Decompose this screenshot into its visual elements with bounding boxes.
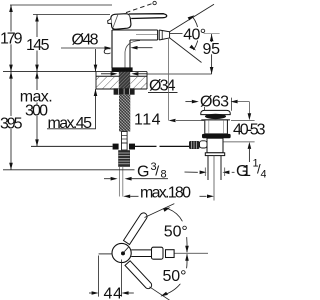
- top view: body circle: [112, 243, 131, 262]
- braided supply hose: [119, 95, 130, 132]
- label 50 upper: [163, 221, 188, 237]
- extension line lever level (y=14.5): [33, 14, 110, 16]
- G3/8 leader underline with arrow: [132, 178, 168, 180]
- svg-text:50°: 50°: [164, 224, 188, 241]
- deck right edge: [146, 72, 148, 89]
- svg-text:40-53: 40-53: [233, 122, 266, 139]
- lower 50 arc: [162, 254, 188, 295]
- svg-text:395: 395: [0, 115, 23, 132]
- label max.300: [19, 90, 54, 103]
- spout inner highlight: [136, 33, 157, 35]
- top view: spout lines: [131, 249, 154, 251]
- top view: left stub: [99, 253, 112, 255]
- faucet base dark strip: [112, 67, 133, 72]
- top view: aerator square: [166, 250, 175, 258]
- tailpipe centerline: [213, 156, 215, 201]
- Ø48 dim line left: [61, 47, 105, 49]
- 40deg arc: [193, 17, 199, 50]
- waste seal band: [202, 134, 231, 138]
- dimension max300 line: [36, 72, 38, 147]
- 44 extension lines: [98, 256, 100, 297]
- 40deg arc arrowheads: [188, 15, 195, 20]
- 395 bottom reference line / G1 1-4 dim line: [3, 169, 140, 171]
- deck surface extension right: [147, 73, 212, 75]
- hose lower tube: [122, 132, 128, 144]
- dimension 95 line: [211, 34, 213, 74]
- svg-text:145: 145: [26, 37, 50, 54]
- lever cap: [111, 14, 131, 30]
- mounting nut: [114, 88, 135, 94]
- supply pipe: [118, 167, 120, 197]
- top view: lower arm axis extension: [150, 287, 172, 300]
- svg-text:/: /: [155, 163, 159, 179]
- aerator left face: [158, 30, 160, 40]
- lever arm: [129, 14, 167, 19]
- label 395: [0, 116, 24, 129]
- waste rod knob: [189, 141, 200, 149]
- faucet body column left edge: [111, 30, 113, 68]
- pop-up waste: Ø63 extension lines: [204, 98, 206, 111]
- pop-up hook behind body: [104, 49, 110, 54]
- 40deg upper ray: [170, 4, 214, 32]
- svg-text:max.45: max.45: [48, 115, 93, 132]
- svg-text:114: 114: [134, 111, 161, 128]
- label 179: [0, 32, 23, 45]
- svg-text:G1: G1: [236, 163, 251, 180]
- max.45 upper leader line: [95, 49, 97, 72]
- deck surface line: [3, 71, 147, 73]
- 40-53 dim upper: [248, 102, 250, 114]
- max.45 underline leader: [47, 89, 96, 129]
- faucet body top / spout top: [112, 29, 158, 31]
- label 95: [202, 42, 221, 54]
- waste tailpipe: [207, 156, 209, 180]
- svg-text:179: 179: [0, 31, 23, 48]
- label G3/8: [135, 163, 185, 178]
- svg-text:Ø63: Ø63: [200, 93, 229, 110]
- waste flange top: [201, 119, 230, 121]
- waste flange: [205, 120, 228, 134]
- waste body: [207, 138, 223, 153]
- deck hatch right: [131, 77, 148, 89]
- svg-text:300: 300: [25, 102, 48, 119]
- waste plug plate: [201, 110, 230, 114]
- dimension 179 arrow down: [9, 65, 13, 72]
- top view: axis line: [175, 252, 209, 254]
- dimension 114 vertical reference: [168, 38, 170, 121]
- svg-text:4: 4: [261, 169, 267, 181]
- top view: lower lever arm: [125, 261, 152, 289]
- dimension 145 arrow up: [35, 15, 39, 22]
- aerator trapezoid: [159, 30, 169, 40]
- max180 right arrow: [200, 195, 207, 197]
- dimension 179 arrow up: [9, 5, 13, 12]
- max180 left arrow: [130, 195, 138, 197]
- 95 top tick: [204, 32, 220, 34]
- extension line top of lever (y=5): [10, 4, 112, 6]
- 114 arrow: [176, 120, 204, 122]
- spout end face: [157, 30, 159, 40]
- label Ø63: [199, 93, 230, 107]
- deck slab inner top line: [96, 75, 147, 77]
- upper 50 arc: [168, 209, 187, 252]
- deck bottom line: [96, 88, 147, 90]
- label Ø34 underlined: [148, 78, 177, 92]
- Ø48 arrow right-pointing: [105, 46, 112, 50]
- G3/8 threaded end: [118, 150, 130, 167]
- 40-53 ticks: [231, 119, 255, 121]
- 44 arrows: [89, 292, 92, 294]
- pop-up rod: [31, 145, 113, 147]
- max.45 arrow down at deck top: [94, 65, 98, 72]
- top view: upper arm axis extension: [145, 204, 175, 218]
- dimension 395 arrow down: [9, 163, 13, 170]
- tailpipe extension ticks: [204, 168, 206, 177]
- top view: spout end piece: [152, 247, 164, 259]
- top view: upper lever arm: [124, 213, 148, 245]
- spout bottom: [130, 39, 158, 41]
- threaded shank through deck: [119, 72, 130, 89]
- dimension max300 arrow down: [35, 139, 39, 146]
- 40deg lower ray: [170, 38, 202, 63]
- svg-text:max.180: max.180: [140, 185, 191, 202]
- dimension max300 arrow up: [35, 72, 39, 79]
- deck left edge: [95, 72, 97, 89]
- Ø48 right arrow: [137, 47, 153, 49]
- Ø63 dim arrows: [185, 101, 191, 103]
- aerator inner line: [161, 30, 163, 39]
- label 40deg: [183, 27, 207, 41]
- label 50 lower: [162, 268, 188, 284]
- 40-53 dim lower: [248, 142, 252, 149]
- 40deg leader: [170, 33, 183, 35]
- body inner curve: [125, 41, 140, 72]
- G3/8 left arrow: [104, 178, 111, 180]
- svg-text:95: 95: [203, 41, 221, 58]
- waste plug shadow lens: [205, 114, 226, 119]
- label 145: [26, 37, 51, 51]
- svg-text:Ø48: Ø48: [72, 32, 99, 49]
- raised lever dashed: [126, 4, 152, 13]
- waste lower lip: [205, 153, 224, 156]
- Ø34 hole arrows: [101, 73, 111, 75]
- dimension 179 line: [10, 5, 12, 72]
- rod collars at hose: [113, 144, 119, 150]
- lever cap left bump: [108, 19, 112, 24]
- dimension 395 line: [10, 72, 12, 170]
- svg-text:G: G: [137, 163, 149, 180]
- dimension 395 arrow up: [9, 72, 13, 79]
- svg-text:50°: 50°: [163, 268, 187, 285]
- svg-text:44: 44: [104, 286, 123, 300]
- faucet body column right edge: [129, 40, 131, 72]
- dimension 145 line: [36, 15, 38, 72]
- dimension 145 arrow down: [35, 65, 39, 72]
- max.45 arrow up at deck bottom: [94, 89, 98, 96]
- deck hatch left: [97, 77, 119, 89]
